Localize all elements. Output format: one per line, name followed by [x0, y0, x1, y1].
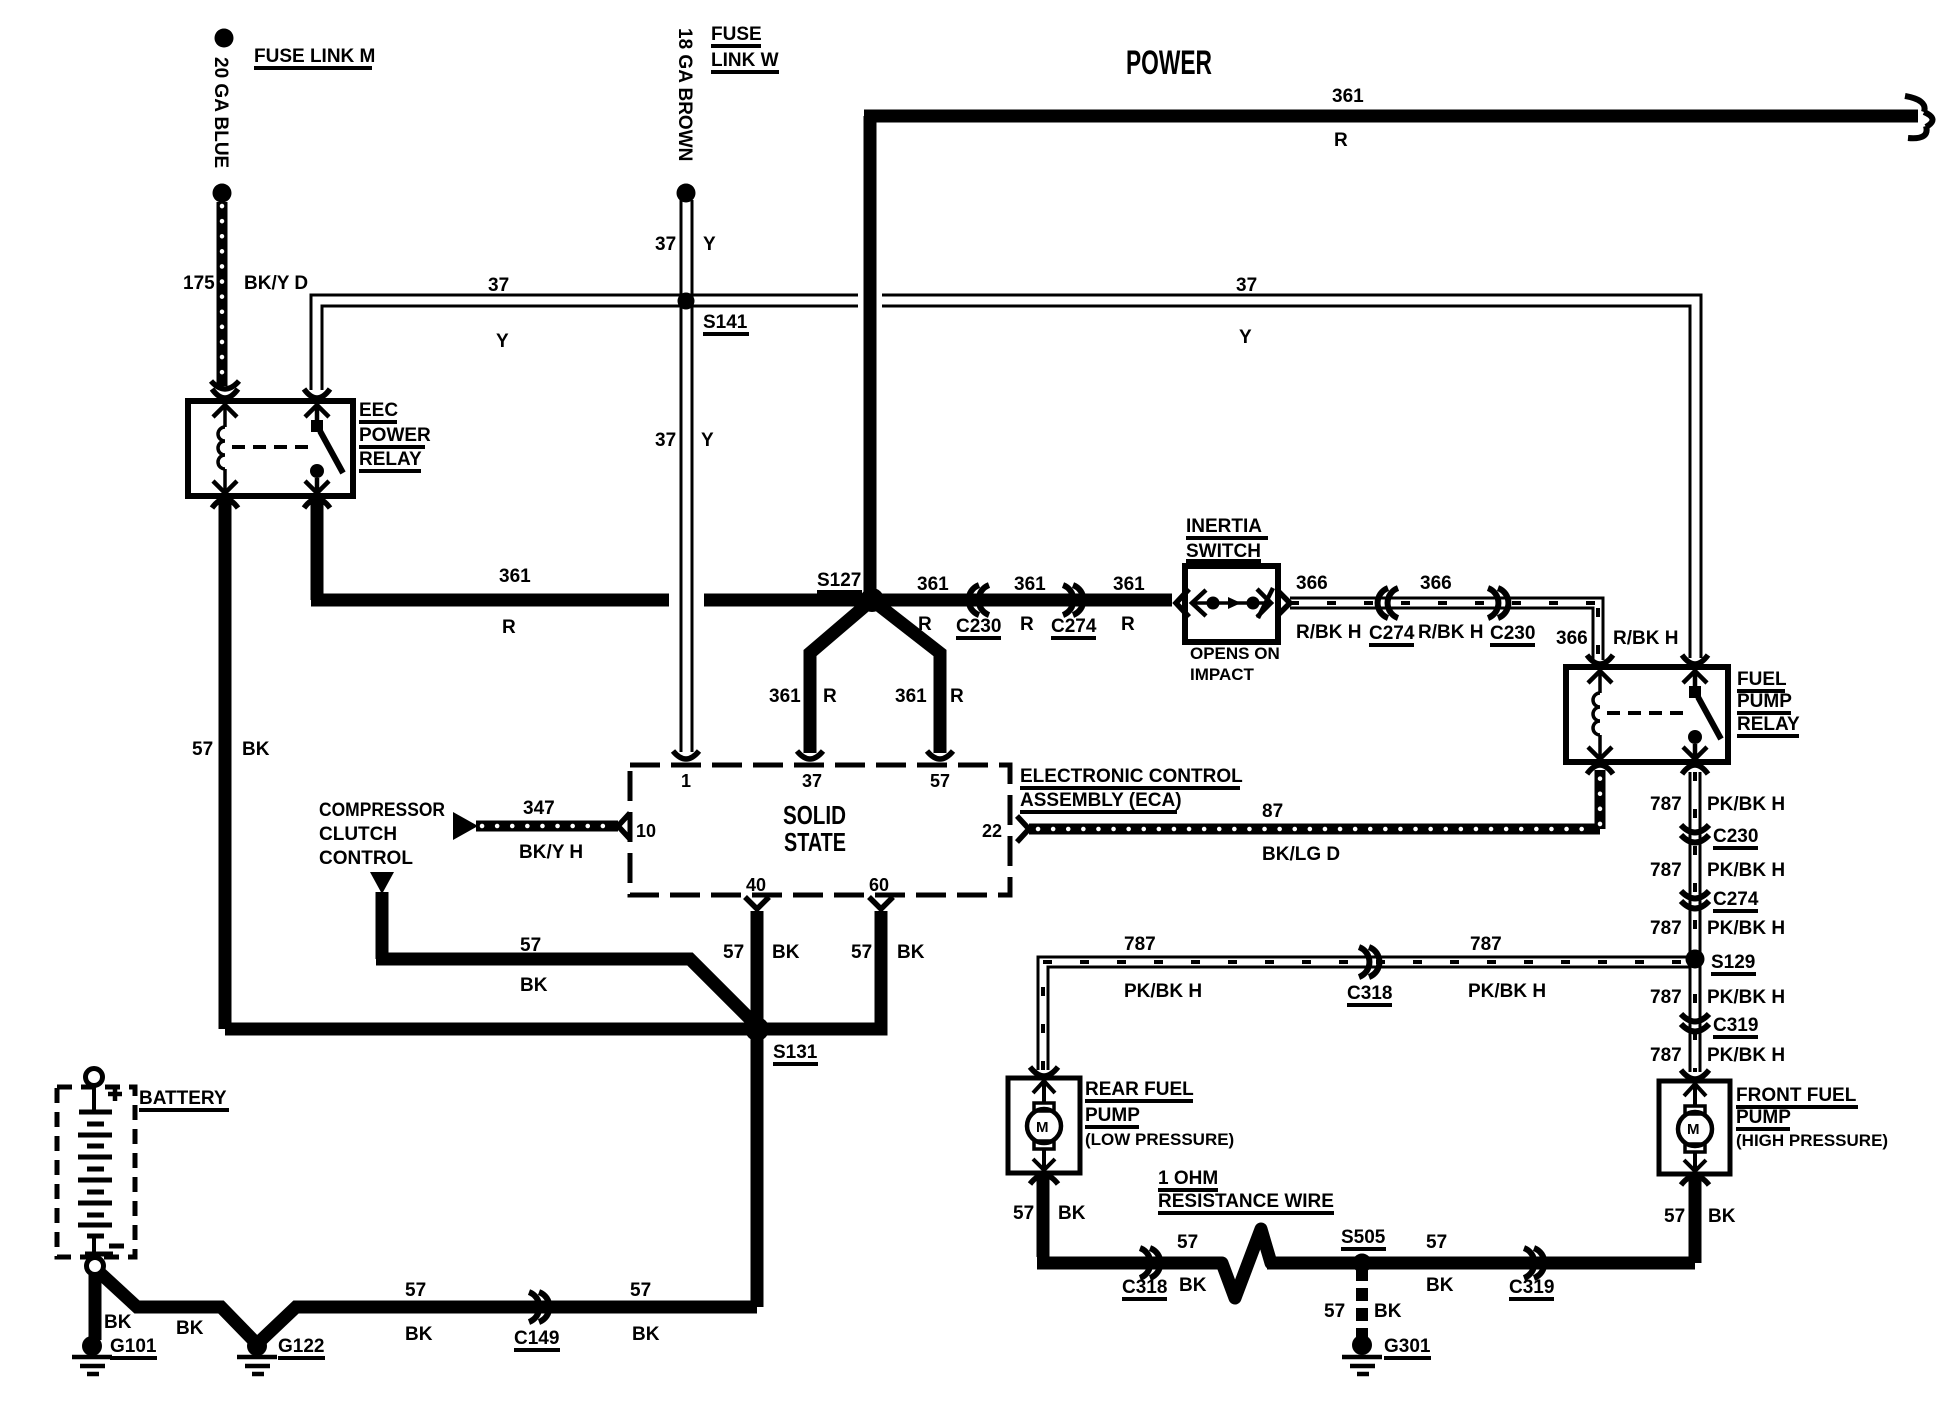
- svg-text:57: 57: [1324, 1301, 1345, 1322]
- wire thick rear fuel pump 57 to S505 with resistance wire: [1037, 1173, 1222, 1263]
- pin cup ECA pin 57: [927, 751, 953, 759]
- wire thick S127 diagonal to ECA pin 37: [810, 600, 872, 753]
- svg-text:R: R: [1334, 130, 1348, 151]
- svg-text:M: M: [1687, 1121, 1700, 1138]
- connector C318 on 57 run: [1140, 1248, 1160, 1278]
- battery positive terminal: [86, 1069, 103, 1086]
- splice dot S505: [1353, 1254, 1372, 1273]
- svg-text:RESISTANCE WIRE: RESISTANCE WIRE: [1158, 1191, 1334, 1212]
- fuel pump relay pin cups: [1587, 655, 1613, 664]
- wire thick battery minus to G101: [89, 1272, 102, 1340]
- ground G122: [237, 1336, 277, 1374]
- EEC power relay internals: [212, 389, 343, 508]
- svg-text:787: 787: [1650, 1045, 1682, 1066]
- wire striped 366 inertia switch to fuel pump relay: [1290, 598, 1603, 660]
- splice dot S129: [1686, 950, 1705, 969]
- svg-text:FRONT FUEL: FRONT FUEL: [1736, 1085, 1857, 1106]
- svg-text:C230: C230: [1490, 623, 1535, 644]
- fuel pump relay switch: [1683, 671, 1707, 687]
- fuel pump relay internals: [1587, 655, 1721, 774]
- pin V ECA pin 40: [745, 897, 769, 909]
- svg-text:361: 361: [917, 574, 949, 595]
- svg-text:RELAY: RELAY: [1737, 714, 1800, 735]
- svg-text:S505: S505: [1341, 1227, 1386, 1248]
- svg-text:FUSE: FUSE: [711, 24, 762, 45]
- svg-text:R/BK H: R/BK H: [1418, 622, 1483, 643]
- svg-text:37: 37: [655, 234, 676, 255]
- svg-text:787: 787: [1650, 918, 1682, 939]
- inertia switch pin brackets: [1176, 589, 1189, 617]
- svg-text:PK/BK H: PK/BK H: [1468, 981, 1546, 1002]
- svg-text:366: 366: [1420, 573, 1452, 594]
- splice dot S131: [745, 1017, 769, 1041]
- svg-text:366: 366: [1556, 628, 1588, 649]
- svg-text:INERTIA: INERTIA: [1186, 516, 1262, 537]
- svg-text:57: 57: [723, 942, 744, 963]
- svg-text:BK: BK: [1058, 1203, 1086, 1224]
- svg-text:M: M: [1036, 1119, 1049, 1136]
- wire dashed S505 to G301: [1356, 1268, 1368, 1338]
- resistance wire zigzag 1 ohm: [1222, 1229, 1271, 1298]
- connector C230 on 366 run: [1488, 588, 1508, 618]
- svg-text:787: 787: [1124, 934, 1156, 955]
- svg-text:BK: BK: [104, 1312, 132, 1333]
- wire dotted 87 ECA pin 22 to fuel pump relay: [1029, 770, 1600, 829]
- svg-text:PUMP: PUMP: [1736, 1107, 1791, 1128]
- svg-text:57: 57: [1013, 1203, 1034, 1224]
- svg-text:57: 57: [192, 739, 213, 760]
- svg-text:BK/LG D: BK/LG D: [1262, 844, 1340, 865]
- svg-text:G122: G122: [278, 1336, 324, 1357]
- svg-text:BK: BK: [1179, 1275, 1207, 1296]
- svg-text:1: 1: [681, 771, 691, 791]
- wire striped 787 rear fuel pump up and across to S129: [1038, 957, 1690, 1070]
- battery plates: [79, 1110, 112, 1115]
- svg-text:57: 57: [1664, 1206, 1685, 1227]
- fuse link W dot: [677, 184, 696, 203]
- svg-text:37: 37: [655, 430, 676, 451]
- wire thick ground run S131 to C149 to G122: [257, 1307, 757, 1344]
- pin cup ECA pin 1: [673, 751, 699, 759]
- svg-text:PK/BK H: PK/BK H: [1707, 794, 1785, 815]
- splice dot S127: [860, 588, 884, 612]
- wire dotted 347 compressor clutch control: [476, 821, 618, 832]
- fuel pump relay dashed link: [1607, 711, 1688, 715]
- svg-text:Y: Y: [496, 331, 509, 352]
- svg-text:PK/BK H: PK/BK H: [1707, 1045, 1785, 1066]
- svg-text:SWITCH: SWITCH: [1186, 541, 1261, 562]
- svg-text:361: 361: [1332, 86, 1364, 107]
- svg-text:57: 57: [405, 1280, 426, 1301]
- pin V ECA pin 60: [869, 897, 893, 909]
- svg-text:S131: S131: [773, 1042, 818, 1063]
- pin cups: [212, 389, 238, 398]
- svg-text:787: 787: [1650, 987, 1682, 1008]
- svg-text:PK/BK H: PK/BK H: [1707, 918, 1785, 939]
- svg-text:60: 60: [869, 875, 889, 895]
- wire thick compressor clutch 57 to S131: [376, 892, 757, 1026]
- svg-text:COMPRESSOR: COMPRESSOR: [319, 800, 445, 821]
- svg-text:S127: S127: [817, 570, 861, 591]
- svg-text:FUEL: FUEL: [1737, 669, 1787, 690]
- svg-text:C230: C230: [956, 616, 1001, 637]
- svg-text:BK: BK: [242, 739, 270, 760]
- svg-text:BK: BK: [405, 1324, 433, 1345]
- svg-text:PK/BK H: PK/BK H: [1707, 860, 1785, 881]
- svg-text:G101: G101: [110, 1336, 157, 1357]
- battery minus sign: [109, 1244, 124, 1249]
- svg-text:POWER: POWER: [1126, 44, 1212, 82]
- svg-text:IMPACT: IMPACT: [1190, 665, 1255, 684]
- svg-text:BK: BK: [772, 942, 800, 963]
- connector hook at right end of 361 wire: [1905, 96, 1933, 138]
- svg-text:361: 361: [895, 686, 927, 707]
- svg-text:BK: BK: [176, 1318, 204, 1339]
- svg-text:57: 57: [851, 942, 872, 963]
- svg-text:ASSEMBLY (ECA): ASSEMBLY (ECA): [1020, 790, 1182, 811]
- svg-text:FUSE LINK M: FUSE LINK M: [254, 46, 375, 67]
- svg-text:Y: Y: [1239, 327, 1252, 348]
- svg-text:BK/Y H: BK/Y H: [519, 842, 583, 863]
- battery plus sign: [108, 1087, 122, 1101]
- wire dotted fuse link M 175 BK/Y: [217, 202, 228, 386]
- svg-text:POWER: POWER: [359, 425, 431, 446]
- wire thick S505 to C319 to front fuel pump: [1267, 1174, 1695, 1263]
- fuel pump relay coil: [1598, 671, 1602, 759]
- inertia switch internals: [1176, 588, 1290, 618]
- front pump motor body: [1685, 1106, 1705, 1114]
- svg-text:18 GA BROWN: 18 GA BROWN: [674, 28, 695, 161]
- svg-text:PK/BK H: PK/BK H: [1707, 987, 1785, 1008]
- connector C274 on 361 run: [1063, 585, 1083, 615]
- svg-text:PUMP: PUMP: [1085, 1105, 1140, 1126]
- svg-text:57: 57: [1177, 1232, 1198, 1253]
- svg-text:OPENS ON: OPENS ON: [1190, 644, 1280, 663]
- svg-text:BK: BK: [1708, 1206, 1736, 1227]
- svg-text:57: 57: [630, 1280, 651, 1301]
- rear fuel pump box: [1008, 1078, 1080, 1173]
- svg-text:R: R: [1121, 614, 1135, 635]
- svg-text:STATE: STATE: [784, 827, 846, 857]
- svg-text:R: R: [502, 617, 516, 638]
- splice dot S141: [678, 293, 695, 310]
- svg-text:BATTERY: BATTERY: [139, 1088, 227, 1109]
- svg-text:S129: S129: [1711, 952, 1755, 973]
- battery dashed box: [57, 1087, 135, 1257]
- connector C274 on 366 run: [1378, 588, 1398, 618]
- svg-text:Y: Y: [701, 430, 714, 451]
- wire thick EEC relay output 361 to S127: [311, 500, 872, 600]
- wire thick S131 down to ground run: [751, 1029, 764, 1307]
- svg-text:22: 22: [982, 821, 1002, 841]
- svg-text:57: 57: [1426, 1232, 1447, 1253]
- svg-text:CLUTCH: CLUTCH: [319, 824, 397, 845]
- pin arrow ECA pin 22: [1017, 816, 1029, 842]
- svg-text:C319: C319: [1509, 1277, 1554, 1298]
- compressor clutch arrow right: [453, 812, 478, 840]
- svg-text:EEC: EEC: [359, 400, 398, 421]
- svg-text:787: 787: [1650, 794, 1682, 815]
- connector C230 on 361 run: [969, 585, 989, 615]
- svg-text:R: R: [823, 686, 837, 707]
- svg-text:LINK W: LINK W: [711, 50, 779, 71]
- wire thick EEC relay ground side 57 down and across to S131 and up to pin60: [225, 500, 881, 1029]
- svg-text:37: 37: [1236, 275, 1257, 296]
- svg-text:BK: BK: [632, 1324, 660, 1345]
- pin bracket ECA pin 10: [618, 813, 630, 839]
- ECA solid state dashed box: [630, 765, 1010, 895]
- wire thick 361 power feed top: [864, 116, 1918, 600]
- svg-text:BK: BK: [897, 942, 925, 963]
- svg-text:C318: C318: [1347, 983, 1392, 1004]
- svg-text:C230: C230: [1713, 826, 1758, 847]
- svg-text:C274: C274: [1369, 623, 1415, 644]
- svg-text:37: 37: [488, 275, 509, 296]
- svg-text:G301: G301: [1384, 1336, 1431, 1357]
- svg-text:57: 57: [930, 771, 950, 791]
- svg-text:361: 361: [1014, 574, 1046, 595]
- relay switch: [305, 405, 329, 421]
- relay coil: [223, 405, 227, 493]
- svg-text:ELECTRONIC CONTROL: ELECTRONIC CONTROL: [1020, 766, 1243, 787]
- svg-text:SOLID: SOLID: [783, 800, 846, 830]
- svg-text:787: 787: [1470, 934, 1502, 955]
- relay dashed link: [232, 445, 310, 449]
- ground G301: [1342, 1335, 1382, 1374]
- svg-text:87: 87: [1262, 801, 1283, 822]
- battery negative stem: [92, 1236, 96, 1254]
- svg-text:(LOW PRESSURE): (LOW PRESSURE): [1085, 1130, 1234, 1149]
- battery internals: [78, 1069, 124, 1275]
- wire striped 787 fuel pump relay down to front fuel pump: [1690, 772, 1700, 1072]
- fuse link M top dot: [215, 29, 234, 48]
- wire thick 361 S127 to inertia switch: [872, 594, 1172, 607]
- wire thick S127 diagonal to ECA pin 57: [872, 600, 940, 753]
- front pump feed arrow: [1684, 1084, 1706, 1106]
- wire double 37 fuse link W down to ECA pin 1: [681, 200, 692, 752]
- rear fuel pump motor: [1027, 1067, 1061, 1184]
- svg-text:BK: BK: [520, 975, 548, 996]
- svg-text:175: 175: [183, 273, 215, 294]
- svg-text:RELAY: RELAY: [359, 449, 422, 470]
- fuel pump relay box: [1566, 667, 1728, 762]
- compressor clutch arrow down: [370, 872, 394, 894]
- svg-text:C318: C318: [1122, 1277, 1167, 1298]
- svg-text:C274: C274: [1713, 889, 1759, 910]
- fuse link M lower dot: [213, 184, 232, 203]
- svg-text:BK: BK: [1426, 1275, 1454, 1296]
- front fuel pump motor: [1678, 1070, 1712, 1185]
- connector C149 on 57 run: [529, 1292, 549, 1322]
- svg-text:R/BK H: R/BK H: [1613, 628, 1678, 649]
- svg-text:R: R: [1020, 614, 1034, 635]
- rear pump feed arrow: [1033, 1081, 1055, 1103]
- wire thick ECA pin 40 down to S131: [751, 911, 764, 1029]
- wire double 37 Y from EEC relay to fuel pump relay: [311, 295, 1701, 658]
- ground G101: [72, 1336, 112, 1374]
- svg-text:S141: S141: [703, 312, 748, 333]
- svg-text:40: 40: [746, 875, 766, 895]
- svg-text:C149: C149: [514, 1328, 559, 1349]
- connector C318 on 787 horizontal run: [1359, 947, 1379, 977]
- front fuel pump box: [1659, 1081, 1730, 1174]
- svg-text:CONTROL: CONTROL: [319, 848, 413, 869]
- rear pump motor body: [1034, 1103, 1054, 1111]
- svg-text:Y: Y: [703, 234, 716, 255]
- svg-text:PK/BK H: PK/BK H: [1124, 981, 1202, 1002]
- svg-text:(HIGH PRESSURE): (HIGH PRESSURE): [1736, 1131, 1888, 1150]
- svg-text:361: 361: [1113, 574, 1145, 595]
- svg-text:C319: C319: [1713, 1015, 1758, 1036]
- inertia switch box: [1185, 566, 1278, 642]
- connector C230 on 787 chain: [1681, 825, 1709, 843]
- connector C319 on 57 run: [1524, 1248, 1544, 1278]
- pin cup ECA pin 37: [797, 751, 823, 759]
- svg-text:20 GA BLUE: 20 GA BLUE: [210, 57, 231, 168]
- wire thick battery minus to G122 dip: [99, 1272, 257, 1344]
- svg-text:37: 37: [802, 771, 822, 791]
- svg-text:R/BK H: R/BK H: [1296, 622, 1361, 643]
- svg-text:BK: BK: [1374, 1301, 1402, 1322]
- svg-text:R: R: [950, 686, 964, 707]
- svg-text:BK/Y D: BK/Y D: [244, 273, 308, 294]
- svg-text:PUMP: PUMP: [1737, 691, 1792, 712]
- svg-text:10: 10: [636, 821, 656, 841]
- svg-text:361: 361: [769, 686, 801, 707]
- svg-text:REAR FUEL: REAR FUEL: [1085, 1079, 1194, 1100]
- svg-text:361: 361: [499, 566, 531, 587]
- connector C319 on 787 chain: [1681, 1014, 1709, 1032]
- svg-text:57: 57: [520, 935, 541, 956]
- svg-text:366: 366: [1296, 573, 1328, 594]
- svg-text:R: R: [918, 614, 932, 635]
- svg-text:1 OHM: 1 OHM: [1158, 1168, 1218, 1189]
- svg-text:787: 787: [1650, 860, 1682, 881]
- connector C274 on 787 chain: [1681, 891, 1709, 909]
- EEC power relay box: [188, 401, 353, 496]
- svg-text:347: 347: [523, 798, 555, 819]
- pin V fuse link M wire end: [211, 381, 239, 389]
- battery negative terminal: [87, 1258, 104, 1275]
- svg-text:C274: C274: [1051, 616, 1097, 637]
